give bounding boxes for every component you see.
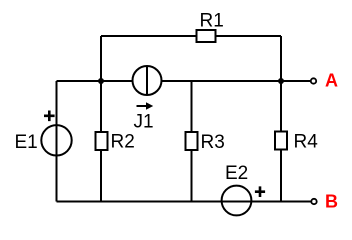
resistor R2: [96, 132, 135, 153]
current source J1: [133, 66, 162, 133]
svg-text:J1: J1: [134, 112, 154, 133]
junction dot left middle node: [98, 78, 104, 84]
wire stub to terminal A: [281, 80, 311, 82]
svg-text:R2: R2: [111, 132, 135, 153]
wire R4 branch vertical: [280, 81, 282, 202]
wire left vertical from top wire down to middle node: [100, 36, 102, 81]
wire R3 branch vertical: [191, 81, 193, 202]
svg-text:R4: R4: [294, 132, 319, 153]
terminal B: [311, 192, 338, 212]
resistor R3: [186, 132, 225, 153]
terminal A: [311, 71, 338, 91]
voltage source E1: [15, 111, 72, 156]
wire top from node above R2 branch to R1 and to right branch: [101, 35, 281, 37]
resistor R4: [275, 132, 318, 153]
wire bottom horizontal through E2 to terminal B: [57, 201, 312, 203]
voltage source E2: [222, 163, 266, 215]
junction dot node A: [278, 78, 284, 84]
svg-text:E2: E2: [225, 163, 248, 184]
wire left branch vertical through E1: [56, 81, 58, 202]
svg-text:B: B: [325, 192, 338, 212]
svg-text:R1: R1: [200, 11, 224, 32]
wire R2 branch vertical: [100, 81, 102, 202]
wire right vertical from top wire down to node A junction: [280, 36, 282, 81]
svg-text:R3: R3: [201, 132, 225, 153]
resistor R1: [197, 11, 224, 43]
wire middle horizontal bus at y=81: [57, 80, 282, 82]
svg-text:E1: E1: [15, 132, 38, 153]
svg-text:A: A: [325, 71, 338, 91]
